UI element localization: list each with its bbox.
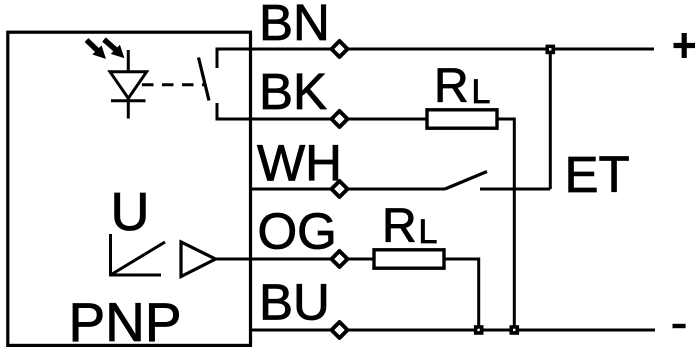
sensor body box [8,32,251,345]
wire RL1 to BU [497,119,514,330]
internal output switch blade [199,58,210,101]
junction on BN line [546,45,556,55]
internal output switch bottom contact wire [217,103,250,119]
wire ET to plus [549,49,552,189]
ramp symbol [111,234,166,275]
connector BN [332,41,348,57]
connector WH [332,181,348,197]
svg-text:BN: BN [259,0,330,51]
svg-text:BU: BU [259,274,330,331]
svg-text:R: R [434,60,469,113]
photodiode light arrows [87,40,124,59]
wire BN [250,48,331,51]
wire OG [216,258,332,261]
wire RL2 to BU [444,259,479,330]
svg-text:OG: OG [258,203,337,260]
photodiode D1 [110,50,147,119]
wire BK [250,118,331,121]
junction BU line 2 [510,325,520,335]
amplifier A1 [181,242,216,277]
terminal minus [673,324,686,328]
svg-text:PNP: PNP [69,291,182,353]
svg-text:ET: ET [565,146,630,203]
resistor RL2 [374,250,444,268]
wire WH [250,188,331,191]
switch ET contact wire [480,188,550,191]
svg-text:L: L [419,213,438,251]
junction BU line 1 [474,325,484,335]
svg-text:U: U [111,182,150,242]
dashed actuation link [142,83,206,86]
connector OG [332,251,348,267]
svg-text:BK: BK [259,63,327,120]
internal output switch top contact wire [217,49,250,68]
svg-text:WH: WH [257,135,342,192]
terminal plus [674,33,696,58]
switch ET blade [445,172,487,190]
connector BU [332,322,348,338]
connector BK [332,111,348,127]
svg-text:R: R [382,200,417,253]
resistor RL1 [427,110,497,128]
wire BU [250,329,331,332]
svg-text:L: L [472,73,491,111]
